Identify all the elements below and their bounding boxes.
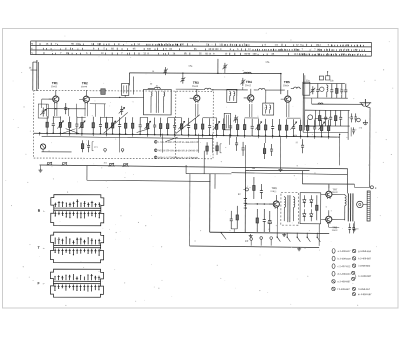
svg-text:2SA52: 2SA52 bbox=[51, 85, 58, 88]
svg-text:c 2-407-612: c 2-407-612 bbox=[338, 265, 351, 268]
svg-text:2SA49: 2SA49 bbox=[192, 85, 199, 88]
svg-text:d 2-409-624: d 2-409-624 bbox=[338, 273, 352, 276]
svg-text:2SA12: 2SA12 bbox=[245, 84, 252, 87]
svg-text:TR5: TR5 bbox=[284, 80, 290, 84]
svg-text:f 2-409-687: f 2-409-687 bbox=[337, 288, 350, 291]
svg-text:TR2: TR2 bbox=[82, 81, 88, 85]
svg-text:2SB22: 2SB22 bbox=[270, 191, 277, 193]
svg-text:M: M bbox=[31, 44, 33, 46]
svg-text:L 10n 41-490-176-12P 41-496-12: L 10n 41-490-176-12P 41-496-129 12P bbox=[158, 142, 198, 144]
svg-text:2SB32: 2SB32 bbox=[332, 192, 338, 194]
svg-text:k 4-959-667: k 4-959-667 bbox=[359, 275, 372, 278]
svg-text:←: ← bbox=[42, 209, 46, 213]
svg-text:TR1: TR1 bbox=[52, 81, 58, 85]
svg-text:l 4-959-557: l 4-959-557 bbox=[358, 288, 371, 291]
svg-text:←: ← bbox=[42, 246, 46, 250]
svg-text:g 4-959-464: g 4-959-464 bbox=[358, 250, 372, 253]
svg-text:M2M 1-10 T-800-800-19 1-10 T-8: M2M 1-10 T-800-800-19 1-10 T-800-80 bbox=[158, 157, 198, 159]
svg-text:b 2-409-619: b 2-409-619 bbox=[338, 258, 352, 261]
svg-text:TR4: TR4 bbox=[246, 80, 252, 84]
svg-text:TR3: TR3 bbox=[193, 81, 199, 85]
svg-text:EP: EP bbox=[245, 241, 249, 243]
svg-text:2SB54: 2SB54 bbox=[283, 85, 290, 87]
svg-text:F: F bbox=[37, 281, 39, 285]
svg-text:2SB32: 2SB32 bbox=[332, 230, 338, 232]
svg-text:TR7: TR7 bbox=[332, 187, 337, 191]
svg-text:h 2-409-687: h 2-409-687 bbox=[358, 257, 372, 260]
svg-text:2SA49: 2SA49 bbox=[81, 85, 88, 88]
svg-text:i 4-959-662: i 4-959-662 bbox=[358, 265, 371, 268]
svg-text:←: ← bbox=[42, 281, 46, 285]
svg-text:e 2-409-667: e 2-409-667 bbox=[337, 280, 351, 283]
svg-text:a 2-409-617: a 2-409-617 bbox=[338, 250, 352, 253]
svg-text:m 4-959-567: m 4-959-567 bbox=[358, 293, 372, 296]
svg-text:TR6: TR6 bbox=[271, 186, 277, 190]
